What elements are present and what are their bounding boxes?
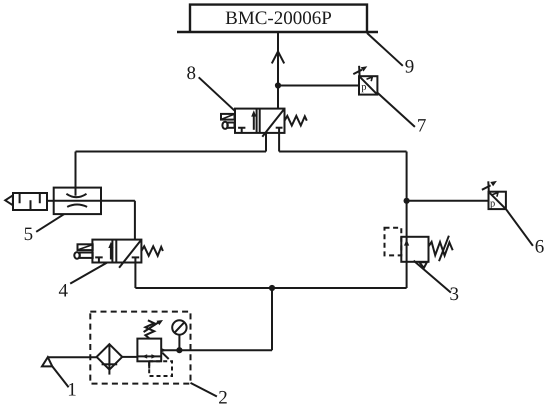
svg-text:p: p — [490, 198, 495, 209]
svg-text:p: p — [361, 82, 366, 93]
svg-text:5: 5 — [24, 224, 34, 245]
svg-text:3: 3 — [449, 284, 459, 305]
svg-text:8: 8 — [187, 63, 197, 84]
svg-text:BMC-20006P: BMC-20006P — [225, 8, 332, 29]
svg-text:6: 6 — [535, 237, 545, 258]
svg-text:7: 7 — [417, 116, 427, 137]
svg-text:9: 9 — [405, 57, 415, 78]
svg-text:2: 2 — [218, 387, 228, 408]
svg-text:1: 1 — [67, 380, 77, 401]
svg-text:4: 4 — [58, 280, 68, 301]
